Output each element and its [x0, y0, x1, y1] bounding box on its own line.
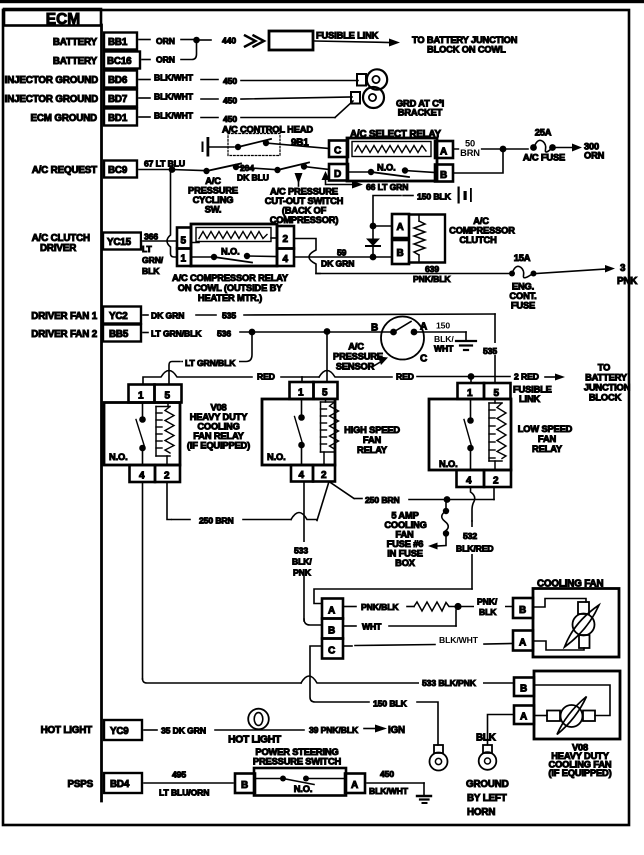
svg-text:535: 535: [222, 311, 236, 321]
svg-text:HEAVY DUTY: HEAVY DUTY: [190, 412, 249, 422]
label 204 DK BLU: [234, 163, 269, 183]
clutch coil resistor and bracket: [409, 215, 445, 263]
svg-text:67 LT BLU: 67 LT BLU: [144, 159, 185, 169]
label HIGH SPEED FAN RELAY: [344, 425, 400, 455]
svg-text:YC15: YC15: [107, 237, 132, 248]
low speed relay pin 5 box: [484, 383, 511, 399]
label V08 HEAVY DUTY COOLING FAN (IF EQUIPPED): [548, 743, 611, 779]
A/C compressor relay main box: [191, 224, 277, 266]
svg-text:HIGH SPEED: HIGH SPEED: [344, 425, 400, 435]
svg-text:15A: 15A: [514, 253, 531, 263]
svg-text:450: 450: [223, 114, 237, 124]
wire V08 relay pin 2 to 250 BRN run: [167, 482, 317, 526]
svg-text:C: C: [334, 146, 341, 157]
wire connector B WHT riser to dot: [343, 610, 456, 632]
wire high speed relay pin 2 diagonals: [317, 482, 362, 521]
svg-text:536: 536: [217, 329, 231, 339]
svg-text:25A: 25A: [535, 128, 552, 138]
svg-text:(BACK OF: (BACK OF: [282, 206, 327, 216]
svg-text:PSPS: PSPS: [67, 779, 93, 790]
chevron arrows >>: [245, 36, 264, 47]
select relay N.O. switch: [348, 163, 435, 178]
power steering pressure switch box: [254, 768, 346, 796]
svg-text:ECM: ECM: [46, 11, 80, 28]
earth ground at PSPS: [417, 783, 431, 803]
V08 relay pin 4 box: [130, 465, 156, 482]
svg-text:50: 50: [465, 139, 475, 149]
high speed relay switch: [295, 399, 305, 465]
junction dot RED at low speed relay pin 1: [468, 373, 475, 380]
low speed relay coil: [489, 399, 506, 470]
label A/C PRESSURE CUT-OUT SWITCH (BACK OF COMPRESSOR): [265, 187, 344, 226]
svg-text:533: 533: [294, 546, 308, 556]
label TO BATTERY JUNCTION BLOCK: [584, 363, 631, 403]
svg-text:RED: RED: [257, 372, 275, 382]
ECM pin label A/C CLUTCH DRIVER (YC15): [32, 233, 90, 254]
svg-text:BATTERY: BATTERY: [585, 373, 628, 383]
compressor relay N.O. switch: [191, 247, 277, 263]
svg-text:5: 5: [165, 391, 171, 402]
svg-text:150 BLK: 150 BLK: [373, 699, 408, 709]
svg-text:RELAY: RELAY: [357, 445, 388, 455]
V08 fan relay main box: [104, 403, 180, 466]
label LOW SPEED FAN RELAY: [518, 424, 573, 454]
svg-text:450: 450: [223, 76, 237, 86]
label 66 LT GRN with double arrow: [322, 171, 409, 192]
low speed fan relay main box: [429, 399, 511, 470]
svg-text:BLK: BLK: [142, 266, 160, 276]
svg-text:FAN: FAN: [538, 434, 557, 444]
svg-text:BC9: BC9: [108, 165, 128, 176]
svg-text:59: 59: [337, 248, 347, 258]
wire BD6 BLK/WHT 450 row: [139, 73, 358, 87]
svg-text:BB1: BB1: [108, 37, 128, 48]
label FUSIBLE LINK: [513, 385, 552, 405]
A/C pressure cut-out switch: [236, 163, 329, 174]
svg-text:A/C: A/C: [348, 342, 364, 352]
wire 250 BRN to low speed relay pin 2: [409, 487, 494, 500]
ECM body right edge wire: [100, 25, 103, 801]
fuse 15A ENG. CONT. FUSE: [509, 253, 537, 311]
wire to 3 PNK arrow: [536, 263, 637, 287]
wire connector C to 150 BLK ground: [310, 646, 438, 745]
svg-text:POWER STEERING: POWER STEERING: [255, 747, 338, 757]
ground ring terminal by left horn: [479, 745, 497, 770]
wire LT GRN/BLK branch to V08 relay pin 5: [169, 332, 252, 384]
compressor relay pin 4 box: [277, 249, 294, 267]
connector box BD1: [104, 109, 137, 126]
svg-text:2: 2: [283, 234, 289, 245]
svg-text:366: 366: [144, 232, 158, 242]
svg-text:DRIVER: DRIVER: [40, 243, 76, 254]
svg-text:HOT LIGHT: HOT LIGHT: [41, 725, 93, 736]
svg-text:LT BLU/ORN: LT BLU/ORN: [159, 788, 209, 798]
high speed fan relay main box: [262, 399, 335, 465]
svg-text:495: 495: [172, 770, 186, 780]
hot light bulb symbol: [248, 709, 269, 730]
svg-text:BB5: BB5: [109, 329, 129, 340]
ground bars symbol at 150 BLK (select relay area): [458, 187, 472, 204]
svg-text:533 BLK/PNK: 533 BLK/PNK: [422, 678, 477, 688]
wire low speed relay pin 4 to 532 BLK/RED: [455, 487, 495, 589]
svg-text:LT GRN/BLK: LT GRN/BLK: [185, 358, 236, 368]
svg-text:LT: LT: [142, 244, 153, 254]
svg-text:BLOCK ON COWL: BLOCK ON COWL: [427, 45, 506, 55]
svg-text:ECM GROUND: ECM GROUND: [30, 113, 97, 124]
wire fuse to 300 ORN arrow: [555, 142, 605, 161]
svg-text:HOT LIGHT: HOT LIGHT: [228, 735, 282, 746]
wire 59 DK GRN from pin 4 to clutch B: [294, 248, 392, 269]
connector box BD7: [104, 90, 137, 107]
svg-text:INJECTOR GROUND: INJECTOR GROUND: [5, 75, 98, 86]
label 2 RED with arrow: [514, 372, 565, 382]
svg-text:RELAY: RELAY: [532, 444, 563, 454]
junction dot diode top: [370, 223, 377, 230]
svg-text:250 BRN: 250 BRN: [199, 516, 234, 526]
wire YC9 35 DK GRN to hot light: [144, 726, 304, 736]
svg-text:A: A: [440, 147, 447, 158]
svg-text:1: 1: [467, 388, 473, 399]
svg-text:INJECTOR GROUND: INJECTOR GROUND: [5, 94, 98, 105]
wire 536 branch down to high speed relay pin 5: [326, 332, 328, 383]
svg-text:B: B: [371, 323, 378, 334]
compressor relay pin 1 box: [177, 249, 191, 267]
svg-text:FUSE #6: FUSE #6: [387, 539, 424, 549]
svg-text:YC2: YC2: [109, 311, 128, 322]
junction dot 50 BRN: [500, 146, 507, 153]
svg-text:C: C: [328, 646, 335, 657]
A/C control head switch (dotted box): [228, 134, 280, 156]
V08 relay pin 1 box: [129, 385, 155, 403]
svg-text:1: 1: [181, 254, 187, 265]
wire BD1 BLK/WHT 450 row with diagonal to terminal 2: [139, 101, 353, 124]
fusible link box: [269, 31, 313, 50]
junction dot PNK/BLK node: [454, 603, 461, 610]
label FUSIBLE LINK with arrow wire: [315, 31, 400, 47]
earth ground at sensor: [456, 332, 476, 350]
fuse 5 AMP in-line: [428, 500, 449, 550]
svg-text:GROUND: GROUND: [466, 779, 509, 790]
svg-text:TO: TO: [598, 363, 610, 373]
wire sensor A to ground, 150 BLK/WHT: [414, 321, 466, 354]
svg-text:5 AMP: 5 AMP: [391, 511, 418, 521]
svg-text:3: 3: [620, 263, 626, 274]
label A/C COMPRESSOR RELAY ON COWL (OUTSIDE BY HEATER MTR.): [172, 273, 289, 303]
wire select relay A to fuse, 50 BRN: [453, 139, 528, 159]
wire YC2 DK GRN 535: [143, 311, 495, 321]
junction dot 536 branch 2: [324, 328, 331, 335]
svg-text:PRESSURE: PRESSURE: [188, 186, 238, 196]
power steering pressure switch A box: [345, 774, 365, 794]
svg-text:A: A: [420, 322, 427, 333]
connector box YC9: [104, 720, 142, 740]
fuse 25A A/C FUSE: [523, 128, 565, 163]
cooling fan 2 terminal A box: [514, 706, 534, 725]
svg-text:35 DK GRN: 35 DK GRN: [161, 726, 206, 736]
pointer arrow to cut-out switch: [295, 173, 303, 186]
svg-text:N.O.: N.O.: [294, 784, 313, 794]
high speed relay coil: [321, 399, 339, 465]
svg-text:535: 535: [483, 346, 497, 356]
cooling fan 1 motor: [533, 599, 599, 651]
wire junction to pin 1: [470, 377, 472, 384]
junction dot BC9: [169, 166, 176, 173]
low speed relay pin 2 box: [484, 470, 511, 487]
label TO BATTERY JUNCTION BLOCK ON COWL: [412, 35, 518, 55]
svg-text:DRIVER FAN 2: DRIVER FAN 2: [31, 329, 97, 340]
svg-text:A: A: [328, 606, 335, 617]
svg-text:FUSIBLE LINK: FUSIBLE LINK: [316, 31, 379, 41]
svg-text:4: 4: [466, 476, 472, 487]
V08 relay switch: [136, 403, 146, 466]
svg-text:COMPRESSOR): COMPRESSOR): [270, 215, 339, 225]
svg-text:A: A: [520, 712, 527, 723]
svg-text:LINK: LINK: [519, 394, 541, 404]
svg-text:639: 639: [425, 264, 439, 274]
wire dot to cooling fan B with PNK/BLK label: [458, 596, 513, 617]
connector box BC9: [104, 161, 137, 178]
svg-text:IGN: IGN: [388, 725, 405, 736]
connector box YC2: [103, 307, 141, 324]
select relay pin B box: [435, 165, 453, 182]
svg-text:N.O.: N.O.: [221, 247, 240, 257]
svg-text:PNK: PNK: [293, 568, 312, 578]
cooling fan 1 terminal B box: [513, 598, 533, 618]
connector box BB5: [103, 325, 141, 342]
svg-text:COOLING: COOLING: [384, 520, 426, 530]
wire connector A PNK/BLK with resistor: [343, 602, 455, 612]
svg-text:BD6: BD6: [108, 75, 128, 86]
svg-text:CYCLING: CYCLING: [193, 195, 234, 205]
svg-text:DK GRN: DK GRN: [321, 259, 354, 269]
svg-text:BLK/: BLK/: [292, 557, 312, 567]
ECM header box: [4, 9, 101, 28]
svg-text:WHT: WHT: [434, 344, 454, 354]
clutch terminal A box: [392, 214, 409, 238]
svg-text:CLUTCH: CLUTCH: [459, 235, 497, 245]
svg-text:D: D: [334, 169, 341, 180]
svg-text:COMPRESSOR: COMPRESSOR: [449, 226, 515, 236]
svg-text:LT GRN/BLK: LT GRN/BLK: [151, 329, 202, 339]
A/C pressure cycling switch: [172, 164, 241, 175]
svg-text:39 PNK/BLK: 39 PNK/BLK: [309, 725, 359, 735]
high speed relay pin 2 box: [313, 465, 335, 482]
label GROUND BY LEFT HORN: [466, 779, 509, 818]
label A/C COMPRESSOR CLUTCH: [449, 216, 515, 245]
svg-text:5: 5: [494, 388, 500, 399]
junction dot 536 branch 1: [249, 329, 256, 336]
label A/C PRESSURE SENSOR with arrow: [333, 342, 388, 372]
svg-text:BOX: BOX: [395, 558, 416, 568]
svg-text:BLK/WHT: BLK/WHT: [369, 786, 409, 796]
svg-text:ORN: ORN: [156, 55, 175, 65]
svg-text:A/C: A/C: [473, 216, 489, 226]
label V08 HEAVY DUTY COOLING FAN RELAY (IF EQUIPPED): [187, 403, 250, 451]
svg-text:PNK/BLK: PNK/BLK: [361, 602, 399, 612]
cooling fan 2 motor: [534, 685, 610, 735]
wire BB5 LT GRN/BLK 536: [143, 329, 390, 339]
svg-text:2: 2: [164, 471, 170, 482]
svg-text:N.O.: N.O.: [377, 163, 396, 173]
svg-text:A/C: A/C: [205, 176, 221, 186]
A/C pressure sensor circle: [381, 317, 424, 360]
svg-text:SW.: SW.: [205, 205, 222, 215]
svg-text:450: 450: [223, 96, 237, 106]
cooling fan 2 box: [534, 671, 620, 739]
svg-text:PNK: PNK: [617, 276, 637, 287]
svg-text:DK GRN: DK GRN: [151, 311, 184, 321]
wire 150 BLK from clutch A riser to ground bars: [373, 192, 452, 225]
wire connector C BLK/WHT to cooling fan A: [343, 635, 513, 646]
svg-text:ORN: ORN: [584, 151, 605, 161]
svg-text:B: B: [520, 684, 527, 695]
wire 532 horizontal to connector A: [314, 589, 472, 604]
select relay pin A box: [435, 141, 453, 158]
low speed relay pin 4 box: [457, 470, 485, 487]
svg-text:BD1: BD1: [108, 113, 128, 124]
svg-text:CUT-OUT SWITCH: CUT-OUT SWITCH: [265, 196, 344, 206]
svg-text:BRN: BRN: [460, 148, 480, 158]
svg-text:YC9: YC9: [110, 726, 129, 737]
svg-text:DK BLU: DK BLU: [237, 173, 269, 183]
V08 relay pin 5 box: [155, 385, 182, 403]
svg-text:2: 2: [321, 470, 327, 481]
svg-text:BLK: BLK: [479, 607, 497, 617]
svg-text:BATTERY: BATTERY: [53, 37, 98, 48]
connector box C (fan harness): [322, 639, 343, 659]
svg-text:A: A: [351, 780, 358, 791]
svg-text:4: 4: [139, 471, 145, 482]
svg-text:WHT: WHT: [362, 622, 382, 632]
svg-text:FAN RELAY: FAN RELAY: [193, 431, 244, 441]
svg-text:GRN/: GRN/: [142, 255, 164, 265]
svg-text:A/C FUSE: A/C FUSE: [523, 153, 565, 163]
svg-text:A/C PRESSURE: A/C PRESSURE: [270, 187, 338, 197]
svg-text:PRESSURE: PRESSURE: [333, 352, 383, 362]
high speed relay pin 4 box: [291, 465, 313, 482]
compressor relay pin 2 box: [277, 226, 294, 249]
V08 relay coil: [156, 403, 174, 466]
svg-text:N.O.: N.O.: [109, 452, 128, 462]
svg-text:PNK/: PNK/: [477, 597, 498, 607]
svg-text:4: 4: [283, 254, 289, 265]
junction dot ORN rows: [193, 37, 200, 44]
svg-text:450: 450: [380, 769, 394, 779]
A/C select relay main box: [347, 138, 437, 181]
svg-text:CONT.: CONT.: [509, 291, 536, 301]
connector box BC16: [104, 52, 140, 69]
svg-text:V08: V08: [210, 403, 226, 413]
svg-text:PNK/BLK: PNK/BLK: [413, 274, 451, 284]
label GRD AT C3I BRACKET: [396, 99, 444, 118]
svg-text:IN FUSE: IN FUSE: [387, 549, 423, 559]
svg-text:BLK/RED: BLK/RED: [456, 544, 494, 554]
junction dot diode bottom: [370, 254, 377, 261]
compressor relay pin 5 box: [177, 228, 191, 249]
wire compressor relay pin 2 to 639 PNK/BLK with hop around pin 4 wire: [294, 239, 320, 274]
svg-text:N.O.: N.O.: [439, 459, 458, 469]
clutch terminal B box: [392, 240, 409, 264]
wire BC9 vertical drop to compressor relay pin 1 with hop over YC15 wire: [167, 170, 177, 258]
svg-text:B: B: [241, 780, 248, 791]
svg-text:LOW SPEED: LOW SPEED: [518, 424, 573, 434]
svg-text:N.O.: N.O.: [267, 452, 286, 462]
svg-text:FUSIBLE: FUSIBLE: [513, 385, 552, 395]
svg-text:PRESSURE SWITCH: PRESSURE SWITCH: [253, 757, 342, 767]
wire BD4 495 LT BLU/ORN: [144, 770, 233, 798]
ground ring terminal at 150 BLK: [430, 745, 448, 771]
connector box BD6: [104, 71, 137, 88]
svg-text:FAN: FAN: [395, 530, 414, 540]
svg-text:A/C REQUEST: A/C REQUEST: [32, 165, 97, 176]
svg-text:BLK/WHT: BLK/WHT: [439, 635, 479, 645]
compressor relay coil winding: [191, 228, 277, 243]
wire junction down to select relay B: [453, 149, 503, 173]
svg-text:BLK: BLK: [476, 733, 496, 744]
svg-text:FAN: FAN: [363, 435, 382, 445]
low speed relay pin 1 box: [458, 383, 485, 399]
svg-text:ON COWL (OUTSIDE BY: ON COWL (OUTSIDE BY: [178, 283, 283, 293]
svg-text:(IF EQUIPPED): (IF EQUIPPED): [548, 768, 611, 778]
svg-text:440: 440: [222, 36, 236, 46]
cooling fan 1 box: [533, 589, 619, 658]
svg-text:TO BATTERY JUNCTION: TO BATTERY JUNCTION: [412, 35, 518, 45]
wire high speed relay pin 4 down 533 BLK/PNK to connector B: [288, 482, 322, 626]
svg-text:A/C COMPRESSOR RELAY: A/C COMPRESSOR RELAY: [172, 273, 289, 283]
svg-text:BLK/WHT: BLK/WHT: [154, 111, 194, 121]
high speed relay pin 5 box: [314, 382, 338, 399]
connector box A (fan harness): [322, 599, 343, 619]
svg-text:FUSE: FUSE: [511, 301, 535, 311]
svg-text:BLK/: BLK/: [434, 334, 454, 344]
svg-text:BRACKET: BRACKET: [398, 108, 443, 118]
wire BB1 ORN row: [139, 36, 211, 46]
wire clutch A row with 150 BLK riser junction: [373, 225, 392, 227]
wire 639 PNK/BLK to 15A fuse: [316, 264, 509, 284]
svg-text:BD4: BD4: [110, 779, 130, 790]
svg-text:BY LEFT: BY LEFT: [467, 793, 507, 804]
wire 39 PNK/BLK to IGN: [309, 725, 405, 737]
svg-text:BATTERY: BATTERY: [53, 56, 98, 67]
svg-text:B: B: [328, 626, 335, 637]
svg-text:5: 5: [322, 388, 328, 399]
svg-text:HEATER MTR.): HEATER MTR.): [198, 293, 262, 303]
svg-text:2: 2: [493, 476, 499, 487]
wire 535 vertical to low speed relay pin 5: [481, 314, 506, 382]
wire BD7 BLK/WHT 450 row: [139, 92, 352, 106]
wire V08 relay pin 4 down to 533 BLK/PNK run: [143, 482, 515, 688]
svg-text:BLOCK: BLOCK: [589, 393, 622, 403]
ring terminal 1: [357, 69, 387, 89]
label 5 AMP COOLING FAN FUSE #6 IN FUSE BOX: [384, 511, 426, 569]
svg-text:B: B: [440, 170, 447, 181]
ring terminal 2: [351, 87, 384, 108]
connector box BD4: [104, 773, 142, 793]
svg-text:150: 150: [436, 321, 450, 331]
svg-text:150 BLK: 150 BLK: [417, 192, 452, 202]
svg-text:(IF EQUIPPED): (IF EQUIPPED): [187, 441, 250, 451]
cooling fan 2 terminal B box: [514, 678, 534, 697]
svg-text:1: 1: [138, 391, 144, 402]
svg-text:DRIVER FAN 1: DRIVER FAN 1: [31, 311, 97, 322]
svg-text:SENSOR: SENSOR: [336, 362, 375, 372]
connector box B (fan harness): [322, 619, 343, 639]
svg-text:250 BRN: 250 BRN: [365, 495, 400, 505]
label A/C PRESSURE CYCLING SW.: [188, 176, 238, 215]
low speed relay switch: [464, 399, 474, 470]
select relay pin C box: [329, 141, 348, 158]
label POWER STEERING PRESSURE SWITCH: [253, 747, 342, 767]
